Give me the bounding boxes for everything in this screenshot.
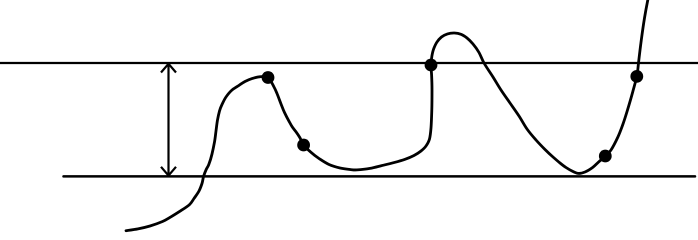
point dot 5 [630, 70, 643, 83]
bottom horizontal line [64, 175, 696, 178]
point dot 2 [297, 139, 310, 152]
point dot 1 [262, 71, 275, 84]
oscillating curve [126, 0, 648, 231]
top horizontal line [0, 62, 698, 64]
arrowhead bottom [161, 167, 176, 176]
vertical double-headed arrow shaft [167, 64, 169, 176]
point dot 3 [425, 59, 438, 72]
point dot 4 [599, 150, 612, 163]
arrowhead top [161, 64, 176, 73]
